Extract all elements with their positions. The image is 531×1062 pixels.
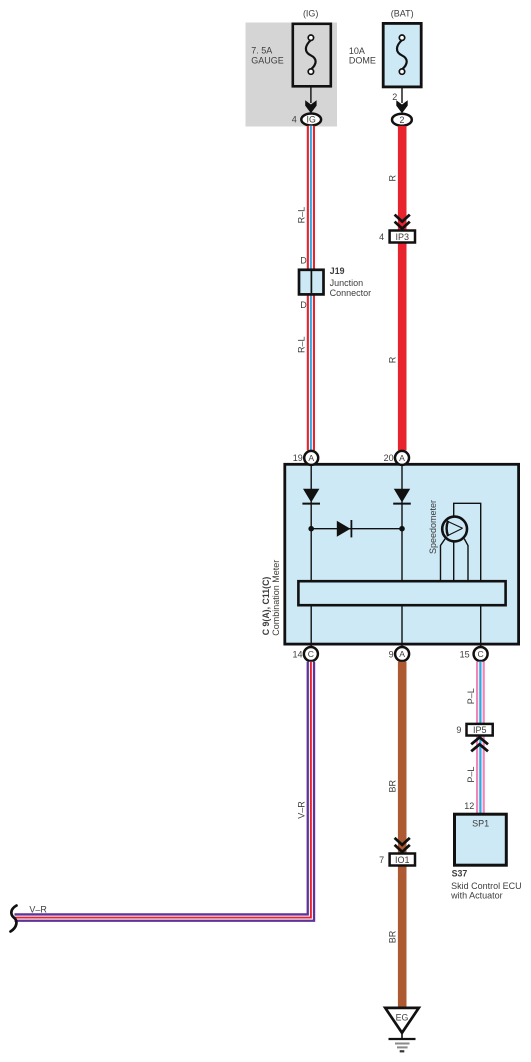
wire label R lower: [388, 356, 398, 363]
diode D1 (down): [302, 489, 320, 504]
svg-text:S37: S37: [452, 868, 468, 878]
connector oval 2: [392, 114, 412, 126]
svg-text:4: 4: [292, 115, 297, 125]
svg-text:BR: BR: [388, 930, 398, 943]
svg-text:7: 7: [379, 855, 384, 865]
svg-text:P–L: P–L: [466, 688, 476, 704]
arrow into connector IG: [305, 100, 316, 113]
pin label D lower: [300, 300, 307, 310]
connector oval IG pin 4: [292, 114, 321, 126]
junction connector J19: [299, 270, 324, 295]
svg-text:4: 4: [379, 232, 384, 242]
svg-text:D: D: [300, 255, 307, 265]
combination meter box C9(A) C11(C): [285, 464, 519, 644]
continuation squiggle: [11, 906, 17, 932]
svg-text:R: R: [388, 356, 398, 363]
svg-text:19: 19: [293, 453, 303, 463]
svg-text:7. 5A: 7. 5A: [251, 45, 272, 55]
wire label V-R horizontal: [29, 905, 47, 915]
svg-text:SP1: SP1: [472, 818, 489, 828]
svg-text:P–L: P–L: [466, 767, 476, 783]
internal lead from pin 20: [401, 458, 403, 646]
wire V-R from pin 14 down and left off page: [15, 662, 311, 918]
fuse F1 element symbol: [306, 35, 316, 74]
ECU box S37 node SP1: [455, 814, 507, 865]
svg-text:9: 9: [456, 725, 461, 735]
wire R-L (red/blue) from IG oval to junction J19 and on to meter pin 19: [307, 126, 315, 451]
svg-text:GAUGE: GAUGE: [251, 56, 284, 66]
wire label R-L upper: [297, 207, 307, 224]
svg-text:R–L: R–L: [297, 207, 307, 224]
connector circle pin 15 (C): [460, 647, 488, 661]
wire label R-L lower: [297, 337, 307, 354]
connector box IO1 pin 7: [379, 854, 415, 866]
svg-text:9: 9: [389, 649, 394, 659]
speedometer loop wire to pin 15: [454, 503, 481, 646]
svg-text:DOME: DOME: [349, 55, 376, 65]
wire label BR lower: [388, 930, 398, 943]
label Speedometer: [428, 500, 438, 554]
svg-text:Speedometer: Speedometer: [428, 500, 438, 554]
svg-text:12: 12: [464, 801, 474, 811]
speedometer leads: [441, 539, 469, 581]
wire label P-L lower: [466, 767, 476, 783]
pin label D upper: [300, 255, 307, 265]
internal lead from pin 19: [310, 458, 312, 646]
label S37 Skid Control ECU with Actuator: [450, 868, 522, 900]
svg-text:IP5: IP5: [473, 725, 487, 735]
svg-text:with Actuator: with Actuator: [450, 890, 503, 900]
diode D3 (right): [337, 520, 352, 537]
svg-text:A: A: [399, 649, 405, 659]
svg-text:2: 2: [399, 115, 404, 125]
svg-text:Combination Meter: Combination Meter: [271, 560, 281, 636]
in-line connector arrow IP3: [395, 215, 410, 229]
speedometer M1: [442, 517, 467, 542]
svg-text:Junction: Junction: [330, 278, 364, 288]
svg-text:(BAT): (BAT): [391, 9, 414, 19]
svg-text:IG: IG: [307, 115, 316, 125]
svg-text:V–R: V–R: [29, 905, 47, 915]
wire label R upper: [388, 174, 398, 181]
svg-text:V–R: V–R: [296, 801, 306, 819]
in-line connector arrow IP5 (up): [471, 737, 488, 751]
label (BAT): [391, 9, 414, 19]
svg-text:IP3: IP3: [396, 232, 410, 242]
diode D2 (down): [393, 489, 411, 504]
svg-text:C: C: [308, 649, 314, 659]
label C 9(A), C11(C) Combination Meter: [261, 560, 281, 636]
svg-text:C 9(A), C11(C): C 9(A), C11(C): [261, 577, 271, 636]
junction node left: [308, 526, 314, 532]
fuse F2 10A DOME box: [383, 23, 421, 87]
svg-text:Connector: Connector: [330, 288, 372, 298]
svg-text:R: R: [388, 174, 398, 181]
svg-text:J19: J19: [330, 266, 345, 276]
label J19 Junction Connector: [330, 266, 372, 298]
wire P-L (pink/blue) from pin 15 to S37: [476, 662, 485, 813]
svg-text:IO1: IO1: [395, 855, 410, 865]
wire fuse F1 to connector IG: [310, 86, 312, 103]
pin number 12: [464, 801, 474, 811]
svg-text:20: 20: [384, 453, 394, 463]
junction node right: [399, 526, 405, 532]
wire R (solid red) from oval 2 to meter pin 20: [398, 126, 407, 451]
value label 7.5A GAUGE: [251, 45, 284, 65]
svg-text:BR: BR: [388, 780, 398, 793]
svg-text:A: A: [399, 453, 405, 463]
connector box IP5 pin 9: [456, 724, 492, 736]
wire label BR upper: [388, 780, 398, 793]
connector circle pin 19 (A): [293, 451, 318, 465]
ground EG: [385, 1008, 419, 1051]
value label 10A DOME: [349, 46, 376, 65]
wire label V-R vertical: [296, 801, 306, 819]
shaded block (GAUGE fuse area): [246, 23, 338, 127]
fuse F2 element symbol: [397, 35, 407, 74]
label (IG): [303, 9, 319, 19]
svg-text:EG: EG: [396, 1013, 409, 1023]
svg-text:D: D: [300, 300, 307, 310]
internal wire between diodes: [311, 528, 402, 530]
svg-text:(IG): (IG): [303, 9, 319, 19]
pin number 2: [392, 92, 397, 102]
svg-text:15: 15: [460, 649, 470, 659]
connector circle pin 14 (C): [292, 647, 317, 661]
connector circle pin 9 (A): [389, 647, 409, 661]
in-line connector arrow IO1: [395, 838, 410, 852]
arrow into connector 2: [396, 100, 407, 113]
internal bus bar: [298, 581, 505, 605]
connector circle pin 20 (A): [384, 451, 409, 465]
fuse F1 7.5A GAUGE box: [293, 24, 331, 87]
svg-text:A: A: [308, 453, 314, 463]
svg-text:C: C: [477, 649, 483, 659]
connector box IP3 pin 4: [379, 231, 415, 243]
svg-text:R–L: R–L: [297, 337, 307, 354]
wire fuse F2 to connector 2: [401, 87, 403, 103]
wire BR (brown) from pin 9 to ground: [398, 662, 407, 1008]
wire label P-L upper: [466, 688, 476, 704]
svg-text:14: 14: [292, 649, 302, 659]
